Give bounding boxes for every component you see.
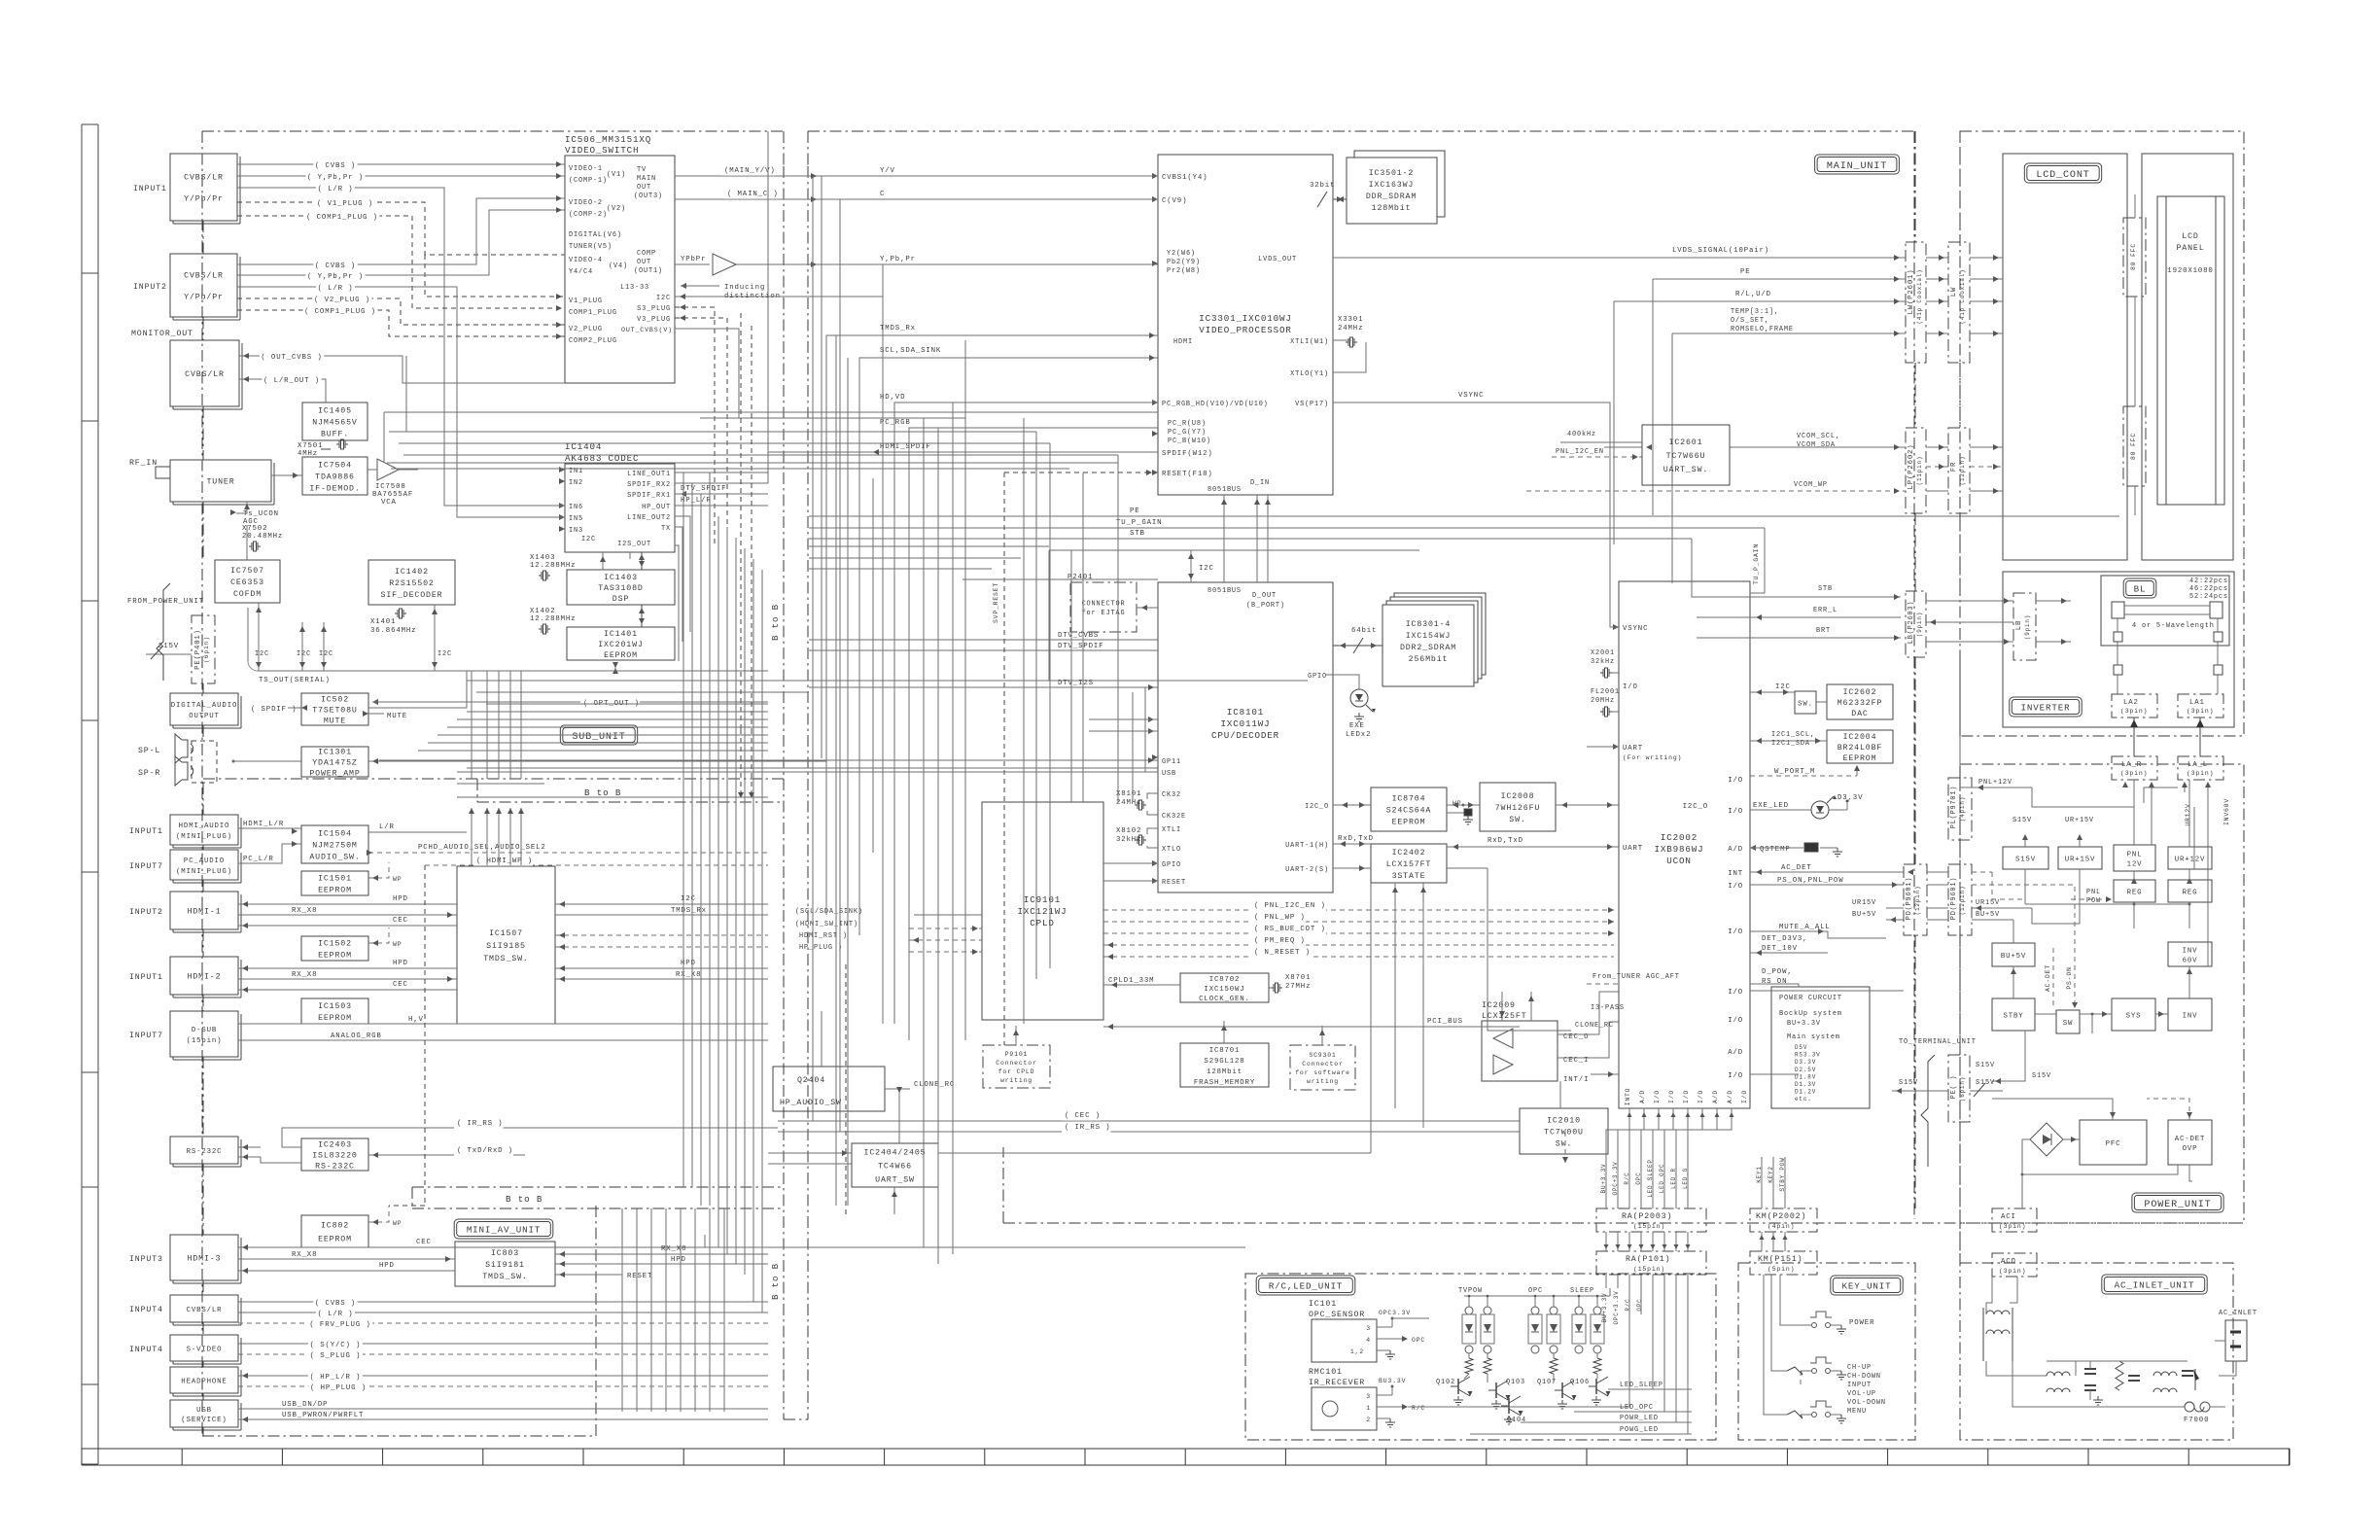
svg-text:CVBS/LR: CVBS/LR: [185, 369, 225, 379]
svg-text:(41p Cooxial): (41p Cooxial): [1916, 269, 1923, 325]
sif decoder IC1402: [368, 560, 455, 605]
svg-text:256Mbit: 256Mbit: [1409, 654, 1449, 664]
svg-text:FRASH_MEMORY: FRASH_MEMORY: [1194, 1079, 1255, 1087]
svg-text:From_TUNER AGC_AFT: From_TUNER AGC_AFT: [1592, 973, 1680, 981]
MAIN_UNIT label: [1815, 155, 1900, 174]
wire i2s out: [629, 552, 631, 559]
wire HDMI_SPDIF: [675, 482, 768, 484]
svg-text:IN5: IN5: [569, 515, 583, 523]
backlight box BL: [2101, 576, 2229, 646]
svg-text:TMDS_Rx: TMDS_Rx: [880, 325, 916, 332]
svg-text:(15pin): (15pin): [1633, 1266, 1665, 1273]
connector INPUT4 S-VIDEO: [170, 1335, 238, 1361]
svg-text:R/L,U/D: R/L,U/D: [1735, 291, 1771, 298]
svg-text:UART-1(H): UART-1(H): [1285, 842, 1329, 850]
svg-text:CLONE_RC: CLONE_RC: [1575, 1022, 1614, 1030]
wire LA1 from LA_L: [2199, 717, 2201, 756]
svg-text:( IR_RS ): ( IR_RS ): [1065, 1124, 1110, 1132]
svg-text:12V: 12V: [2127, 860, 2143, 868]
svg-text:(3pin): (3pin): [1999, 1223, 2026, 1230]
MAIN_UNIT bottom-right boundary: [1003, 1222, 2244, 1224]
wire L/R input4: [238, 1312, 768, 1313]
svg-text:PCHD_AUDIO_SEL,AUDIO_SEL2: PCHD_AUDIO_SEL,AUDIO_SEL2: [418, 844, 546, 852]
svg-text:IC7508: IC7508: [375, 483, 406, 491]
svg-text:HP_L/R: HP_L/R: [681, 497, 712, 505]
svg-text:(3pin): (3pin): [1999, 1268, 2026, 1275]
wire OUT_CVBS v: [675, 329, 739, 418]
wire mute amp: [233, 760, 301, 762]
svg-text:ERR_L: ERR_L: [1813, 607, 1837, 614]
connector PD(P9601) power: [1948, 864, 1972, 935]
svg-text:(3pin): (3pin): [2120, 708, 2148, 715]
wire tuner cofdm: [246, 525, 248, 560]
wire SCL SDA vp: [859, 358, 1158, 935]
svg-text:QSTEMP: QSTEMP: [1760, 846, 1791, 854]
svg-text:KEY_UNIT: KEY_UNIT: [1842, 1281, 1892, 1292]
bus horizontal lower: [467, 680, 1308, 682]
svg-text:NJM2750M: NJM2750M: [312, 842, 357, 851]
footer title band: [82, 1448, 2290, 1450]
svg-text:(MINI_PLUG): (MINI_PLUG): [176, 868, 232, 876]
svg-text:IXC163WJ: IXC163WJ: [1369, 181, 1414, 190]
svg-text:12.288MHz: 12.288MHz: [530, 562, 576, 570]
reg BU+5V: [1992, 943, 2035, 966]
svg-text:REG: REG: [2183, 889, 2198, 896]
svg-text:STB: STB: [1130, 530, 1145, 538]
svg-text:for software: for software: [1295, 1069, 1350, 1076]
wire USB_PWRON: [238, 1418, 768, 1420]
svg-text:OUT: OUT: [637, 259, 651, 266]
svg-text:HEADPHONE: HEADPHONE: [181, 1378, 227, 1385]
svg-text:IC803: IC803: [491, 1249, 519, 1258]
svg-text:VS(P17): VS(P17): [1295, 401, 1329, 408]
wire DTV_SPDIF: [675, 493, 768, 495]
svg-text:MUTE_A_ALL: MUTE_A_ALL: [1779, 924, 1831, 931]
svg-text:( SPDIF ): ( SPDIF ): [251, 706, 297, 714]
svg-text:24MHz: 24MHz: [1338, 325, 1363, 332]
AC_INLET_UNIT label: [2102, 1275, 2207, 1294]
svg-text:MUTE: MUTE: [387, 713, 407, 720]
svg-text:TO_TERMINAL_UNIT: TO_TERMINAL_UNIT: [1899, 1038, 1977, 1046]
wire CEC hdmi1: [238, 925, 457, 927]
svg-text:KM(P2002): KM(P2002): [1756, 1211, 1806, 1221]
wire L/R input2: [237, 287, 565, 517]
wires LW2 to lcd: [1970, 257, 2003, 259]
svg-text:CEC: CEC: [416, 1239, 432, 1246]
svg-text:42:22pcs: 42:22pcs: [2189, 577, 2228, 585]
svg-text:( N_RESET ): ( N_RESET ): [1254, 949, 1311, 957]
power amp IC1301: [301, 747, 368, 777]
wire Y,Pb,Pr input2: [237, 210, 565, 275]
arrows KM to KM: [1761, 1232, 1763, 1251]
svg-text:PL(P9701): PL(P9701): [1950, 786, 1958, 828]
svg-text:I2C: I2C: [255, 650, 269, 658]
speaker SP-L: [182, 740, 188, 757]
wire tuner to demod: [271, 474, 302, 476]
svg-text:COMP: COMP: [637, 250, 656, 258]
connector LA_R: [2112, 756, 2157, 780]
svg-text:INT/I: INT/I: [1563, 1076, 1589, 1084]
wire LVDS_OUT: [1333, 257, 1906, 259]
svg-text:V1_PLUG: V1_PLUG: [569, 297, 603, 305]
power wires terminal: [2024, 869, 2026, 904]
wire I2C_O chain: [1333, 804, 1371, 806]
svg-text:PE: PE: [1740, 268, 1751, 276]
ucon IC2002: [1619, 581, 1750, 1108]
svg-text:S15V: S15V: [2015, 856, 2036, 863]
svg-text:OPC: OPC: [1412, 1337, 1425, 1344]
svg-text:PD(P9601): PD(P9601): [1950, 877, 1958, 920]
svg-text:LINE_OUT2: LINE_OUT2: [627, 514, 671, 522]
tmds switch IC803: [455, 1242, 555, 1286]
svg-text:INV: INV: [2183, 947, 2198, 955]
svg-text:I/O: I/O: [1728, 883, 1743, 891]
svg-text:D1.3V: D1.3V: [1795, 1081, 1816, 1088]
svg-text:(15pin): (15pin): [187, 1037, 223, 1045]
arrows RA to RA: [1605, 1232, 1607, 1251]
svg-text:CH-DOWN: CH-DOWN: [1847, 1373, 1881, 1381]
wire BRT: [1697, 637, 1901, 639]
wire cec chain left: [705, 1246, 1245, 1248]
svg-text:( HDMI_WP ): ( HDMI_WP ): [476, 857, 533, 865]
reg SYS: [2112, 998, 2155, 1031]
svg-text:I/O: I/O: [1728, 777, 1743, 785]
reg UR+15V: [2058, 847, 2102, 869]
wire L/R input1: [237, 188, 565, 506]
svg-text:PC_RGB: PC_RGB: [880, 419, 911, 427]
uart switch IC2601: [1642, 425, 1730, 485]
wire L/R out audio sw: [368, 831, 467, 833]
resistor key1: [1787, 1367, 1802, 1375]
svg-text:LVDS_OUT: LVDS_OUT: [1258, 256, 1297, 263]
svg-text:XTLI: XTLI: [1162, 826, 1181, 834]
svg-text:ACO: ACO: [2001, 1258, 2016, 1266]
ac inlet wiring: [2012, 1361, 2168, 1407]
connector KM(P151): [1750, 1251, 1817, 1275]
brace from power: [157, 583, 170, 681]
svg-text:PFC: PFC: [2106, 1140, 2121, 1148]
svg-text:KEY2: KEY2: [1767, 1166, 1774, 1183]
connector LW 41p: [1948, 242, 1970, 363]
svg-text:UR+15V: UR+15V: [2065, 856, 2096, 863]
svg-text:Main system: Main system: [1787, 1033, 1840, 1041]
wire FRV_PLUG: [238, 1322, 768, 1324]
svg-text:POWER: POWER: [1849, 1319, 1874, 1327]
wire OPT_OUT: [544, 701, 768, 703]
svg-text:SW.: SW.: [1556, 1140, 1572, 1149]
svg-text:CVBS1(Y4): CVBS1(Y4): [1162, 174, 1207, 182]
wire ucon uart write: [1587, 746, 1619, 748]
svg-text:HPD: HPD: [671, 1256, 686, 1264]
svg-text:LB: LB: [2015, 620, 2023, 630]
svg-text:TC4W66: TC4W66: [878, 1163, 912, 1172]
svg-text:IC8101: IC8101: [1227, 707, 1264, 717]
svg-text:SP-R: SP-R: [138, 769, 160, 778]
svg-text:USB: USB: [196, 1407, 212, 1415]
svg-text:INPUT4: INPUT4: [129, 1346, 163, 1354]
svg-text:R/C: R/C: [1625, 1298, 1631, 1311]
wire bundle horizontal y740: [467, 711, 768, 713]
svg-text:SLEEP: SLEEP: [1570, 1287, 1594, 1295]
svg-text:writing: writing: [1307, 1078, 1339, 1085]
svg-text:RA(P101): RA(P101): [1626, 1254, 1670, 1264]
svg-text:TEMP[3:1],: TEMP[3:1],: [1731, 308, 1779, 316]
wire sc9301 up: [1321, 1026, 1323, 1045]
svg-text:RS-232C: RS-232C: [315, 1163, 355, 1172]
svg-text:VSYNC: VSYNC: [1458, 392, 1484, 400]
svg-text:INPUT4: INPUT4: [129, 1306, 163, 1314]
wire hp audio q2404: [821, 1011, 822, 1067]
wire bundle vertical x700: [682, 472, 684, 1187]
svg-text:27MHz: 27MHz: [1285, 983, 1311, 991]
AC inlet unit boundary: [1960, 1263, 2233, 1440]
wire RX_X8 tmds: [555, 978, 768, 980]
svg-text:X1401: X1401: [370, 618, 396, 626]
wire MAIN_C: [675, 198, 1158, 200]
wire mute路: [1828, 931, 1886, 938]
svg-text:BU+5V: BU+5V: [2001, 953, 2026, 961]
connector ACI 3pin: [1992, 1208, 2037, 1232]
svg-text:S15V: S15V: [2012, 817, 2032, 824]
svg-text:TX: TX: [661, 525, 671, 533]
svg-text:DIGITAL(V6): DIGITAL(V6): [569, 231, 622, 239]
svg-text:IXC150WJ: IXC150WJ: [1204, 986, 1244, 994]
svg-text:SPDIF_RX1: SPDIF_RX1: [627, 492, 671, 500]
svg-text:BU+5V: BU+5V: [1852, 911, 1876, 919]
svg-text:I2C: I2C: [656, 295, 671, 302]
svg-text:COMP1_PLUG: COMP1_PLUG: [569, 309, 617, 317]
svg-text:V3_PLUG: V3_PLUG: [637, 316, 671, 324]
svg-text:I2C: I2C: [681, 895, 696, 903]
svg-text:80 FFC: 80 FFC: [2130, 433, 2137, 460]
svg-text:S15V: S15V: [2032, 1072, 2051, 1080]
svg-text:I2C: I2C: [1199, 565, 1214, 573]
svg-text:IC506_MM3151XQ: IC506_MM3151XQ: [565, 134, 651, 145]
switch SW power: [2056, 1010, 2080, 1033]
wire V1_PLUG input1: [237, 202, 565, 255]
svg-text:USB_DN/DP: USB_DN/DP: [282, 1401, 328, 1409]
reg INV: [2168, 998, 2212, 1031]
svg-text:RxD,TxD: RxD,TxD: [1487, 837, 1523, 845]
lcd outer board: [2142, 154, 2233, 560]
svg-text:OUT_CVBS(V): OUT_CVBS(V): [621, 326, 673, 333]
svg-text:INTO: INTO: [1625, 1088, 1631, 1106]
svg-text:IC802: IC802: [321, 1222, 349, 1231]
svg-text:CK32E: CK32E: [1162, 813, 1186, 821]
svg-text:PS_ON,PNL_POW: PS_ON,PNL_POW: [1777, 877, 1843, 885]
svg-text:IC8301-4: IC8301-4: [1406, 620, 1451, 629]
connector FR 12pin: [1948, 428, 1970, 513]
op-amp buffer IC1405: [302, 402, 367, 440]
svg-text:HPD: HPD: [393, 895, 408, 903]
svg-text:LW(P2601): LW(P2601): [1907, 269, 1915, 315]
wire ERR_L: [1697, 616, 1901, 618]
reg S15V: [2003, 847, 2048, 869]
wire bundle cpld vertical: [1144, 687, 1146, 772]
svg-text:(3pin): (3pin): [2187, 708, 2214, 715]
svg-text:for EJTAG: for EJTAG: [1082, 610, 1126, 617]
svg-text:Q106: Q106: [1570, 1379, 1590, 1386]
svg-text:(COMP-2): (COMP-2): [569, 211, 608, 219]
svg-text:(5pin): (5pin): [1767, 1266, 1795, 1273]
svg-text:IXC011WJ: IXC011WJ: [1221, 718, 1271, 729]
svg-text:CPU/DECODER: CPU/DECODER: [1211, 730, 1279, 741]
wire MAIN_Y/V: [675, 175, 1158, 177]
svg-text:3: 3: [1366, 1325, 1371, 1332]
wire dsp codec link: [641, 552, 643, 570]
svg-text:R/C,LED_UNIT: R/C,LED_UNIT: [1269, 1281, 1343, 1292]
svg-text:YPbPr: YPbPr: [681, 256, 706, 263]
svg-text:(15pin): (15pin): [1633, 1223, 1665, 1230]
svg-text:EEPROM: EEPROM: [318, 952, 352, 961]
svg-text:X8701: X8701: [1285, 974, 1311, 982]
svg-text:(V1): (V1): [607, 171, 626, 179]
connector INPUT4 CVBS/LR: [170, 1295, 238, 1322]
svg-text:VIDEO_PROCESSOR: VIDEO_PROCESSOR: [1199, 325, 1291, 335]
svg-text:( CVBS ): ( CVBS ): [315, 1300, 356, 1308]
eeprom IC1501: [301, 871, 368, 895]
svg-text:V2_PLUG: V2_PLUG: [569, 326, 603, 333]
uart switch IC2404/2405: [852, 1143, 938, 1187]
connector INPUT7 D-SUB: [170, 1011, 238, 1057]
svg-text:PC_G(Y7): PC_G(Y7): [1168, 429, 1207, 437]
svg-text:EEPROM: EEPROM: [318, 1236, 352, 1244]
svg-text:TU_P_GAIN: TU_P_GAIN: [1116, 519, 1162, 527]
svg-text:EEPROM: EEPROM: [1843, 754, 1877, 763]
wire RX_X8 hdmi1: [238, 914, 457, 916]
audio switch IC1504: [301, 825, 368, 863]
wire HPD hdmi3: [238, 1270, 455, 1272]
page frame left ruler: [81, 124, 83, 1464]
connector LA2: [2112, 694, 2157, 717]
svg-text:UART_SW.: UART_SW.: [1663, 466, 1708, 474]
wires LW to LW2: [1926, 257, 1948, 259]
svg-text:PCI_BUS: PCI_BUS: [1427, 1018, 1463, 1026]
wire CVBS input2: [237, 198, 565, 264]
svg-text:(SCL/SDA_SINK): (SCL/SDA_SINK): [795, 908, 863, 916]
svg-text:LVDS_SIGNAL(10Pair): LVDS_SIGNAL(10Pair): [1672, 247, 1769, 255]
wire HPD tmds: [555, 967, 768, 969]
resistor R led2: [1484, 1358, 1491, 1374]
svg-text:DTV_SPDIF: DTV_SPDIF: [681, 485, 726, 493]
svg-text:OPC: OPC: [1636, 1298, 1643, 1311]
svg-text:DDR2_SDRAM: DDR2_SDRAM: [1400, 644, 1456, 652]
svg-text:I/O: I/O: [1728, 989, 1743, 997]
svg-text:(3pin): (3pin): [2187, 770, 2214, 777]
svg-text:C(V9): C(V9): [1162, 197, 1187, 205]
wire VSYNC long: [1333, 402, 1619, 627]
wire LA2 from LA_R: [2133, 717, 2135, 756]
svg-text:UART_SW: UART_SW: [875, 1176, 915, 1185]
svg-text:LCX157FT: LCX157FT: [1386, 860, 1431, 869]
svg-text:HPD: HPD: [379, 1262, 395, 1270]
svg-text:Y/V: Y/V: [880, 167, 895, 175]
svg-text:IC9101: IC9101: [1024, 894, 1061, 905]
svg-text:VCA: VCA: [381, 499, 397, 507]
connector HEADPHONE: [170, 1367, 238, 1393]
svg-text:STBY_POW: STBY_POW: [1779, 1157, 1786, 1191]
svg-text:AC-DET: AC-DET: [2175, 1136, 2206, 1143]
svg-text:IC2602: IC2602: [1843, 688, 1877, 697]
transistor Q107: [1561, 1382, 1563, 1398]
svg-text:HDMI-2: HDMI-2: [188, 973, 222, 982]
svg-text:PE( ): PE( ): [1950, 1075, 1958, 1100]
svg-text:RMC101: RMC101: [1309, 1368, 1343, 1377]
svg-text:D3.3V: D3.3V: [1795, 1059, 1816, 1066]
switch Q2404: [773, 1067, 885, 1111]
connector INPUT2 CVBS/LR: [170, 254, 237, 317]
wire RX_X8 hdmi3: [238, 1258, 455, 1260]
LCD unit boundary: [1960, 131, 2244, 736]
wire IR_RS rs232: [282, 1128, 525, 1147]
svg-text:for CPLD: for CPLD: [998, 1068, 1035, 1075]
svg-text:AC_DET: AC_DET: [1781, 864, 1812, 872]
wire pnl12 from pl: [1960, 787, 1972, 788]
resistor R led4: [1593, 1358, 1601, 1374]
svg-text:IN6: IN6: [569, 504, 583, 511]
svg-text:HDMI: HDMI: [1173, 338, 1193, 346]
wire p9101 up: [1015, 1026, 1017, 1045]
svg-text:(12pin): (12pin): [1914, 886, 1921, 916]
svg-text:LCD: LCD: [2182, 232, 2198, 241]
svg-text:C: C: [880, 191, 885, 198]
connector INPUT1 CVBS/LR: [170, 154, 237, 221]
svg-text:PS-ON: PS-ON: [2066, 966, 2073, 989]
svg-text:VCOM_SCL,: VCOM_SCL,: [1797, 433, 1840, 440]
wire lw2 dash vert: [1959, 131, 1961, 242]
svg-text:RX_X8: RX_X8: [292, 1251, 317, 1259]
svg-text:( COMP1_PLUG ): ( COMP1_PLUG ): [304, 308, 376, 316]
ac inlet filter: [1986, 1361, 2047, 1376]
svg-text:(41p Cooxial): (41p Cooxial): [1959, 269, 1966, 325]
bus horizontal bundle center: [384, 411, 1158, 413]
svg-text:INV60V: INV60V: [2223, 798, 2230, 825]
wire CVBS input4: [238, 1301, 768, 1303]
svg-text:WP: WP: [393, 876, 402, 883]
svg-text:PANEL: PANEL: [2176, 244, 2204, 253]
svg-text:INPUT2: INPUT2: [133, 283, 167, 292]
svg-text:HDMI_L/R: HDMI_L/R: [243, 821, 284, 828]
svg-text:I/O: I/O: [1741, 1090, 1748, 1103]
eeprom IC1503: [301, 998, 368, 1024]
svg-text:AGC: AGC: [243, 518, 259, 526]
connector LW(P2601): [1906, 242, 1926, 363]
svg-text:IC7504: IC7504: [318, 462, 352, 471]
wire OUT_CVBS monitor: [239, 356, 402, 369]
svg-text:SCL,SDA_SINK: SCL,SDA_SINK: [880, 347, 941, 355]
lamp connector squares: [2114, 665, 2122, 675]
wire USB_DN/DP: [238, 1408, 768, 1410]
wire hdmi_wp vertical dash: [424, 865, 426, 1206]
fuse F7000: [2185, 1402, 2194, 1412]
svg-text:MINI_AV_UNIT: MINI_AV_UNIT: [467, 1225, 541, 1236]
wire cec ir long: [778, 1120, 1520, 1122]
svg-text:IC8702: IC8702: [1209, 976, 1241, 984]
svg-text:KM(P151): KM(P151): [1758, 1254, 1802, 1264]
svg-text:COFDM: COFDM: [233, 590, 262, 599]
svg-text:FL2001: FL2001: [1591, 688, 1620, 696]
wire STB mid: [809, 538, 1692, 540]
svg-text:I2S_OUT: I2S_OUT: [617, 541, 651, 548]
svg-text:( PM_REQ ): ( PM_REQ ): [1254, 937, 1306, 945]
svg-text:HP_AUDIO_SW: HP_AUDIO_SW: [780, 1099, 842, 1107]
lcd controller board: [2003, 154, 2127, 560]
svg-text:I/O: I/O: [1728, 928, 1743, 936]
ac inlet connector: [2225, 1320, 2247, 1361]
svg-text:VOL-DOWN: VOL-DOWN: [1847, 1399, 1886, 1407]
svg-text:LCD_CONT: LCD_CONT: [2036, 170, 2089, 181]
svg-text:HDMI_AUDIO: HDMI_AUDIO: [179, 822, 230, 830]
